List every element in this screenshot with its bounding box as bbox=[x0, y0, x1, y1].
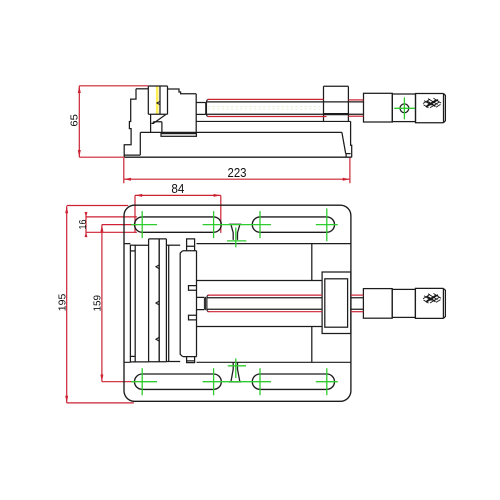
thread minor top bbox=[207, 101, 364, 103]
dim 159 ext bottom bbox=[102, 381, 135, 383]
rail top bbox=[197, 280, 323, 282]
left foot inner line bbox=[124, 154, 140, 156]
thread minor bottom bbox=[207, 113, 364, 115]
jaw plate gap highlight (yellow stripe) bbox=[156, 86, 159, 114]
slot BR bbox=[252, 374, 334, 389]
223 arrows bbox=[124, 178, 131, 181]
knob knurl symbol (side view) bbox=[423, 98, 441, 108]
fixed jaw clamp boss under plate bbox=[150, 114, 152, 132]
svg-text:195: 195 bbox=[56, 294, 68, 312]
dim 195 ext bottom bbox=[67, 402, 134, 404]
bracket top bbox=[324, 85, 349, 87]
dim 223 ext right bbox=[349, 158, 351, 183]
handle cross hole bbox=[400, 104, 409, 113]
movable jaw slide plate bbox=[161, 134, 196, 137]
clamp V bottom bbox=[229, 362, 242, 382]
bracket right bbox=[347, 86, 349, 121]
bottom row verticals bbox=[141, 368, 143, 395]
movable jaw top profile bbox=[168, 89, 197, 94]
jaw plate seam line bbox=[158, 239, 160, 362]
base rear edge bbox=[351, 121, 352, 157]
dim 65 extension bottom bbox=[79, 156, 124, 158]
plan knob right face bbox=[443, 288, 445, 318]
right foot notch bbox=[345, 154, 347, 158]
plan screw neck bbox=[197, 297, 205, 309]
dim 223 ext left bbox=[123, 158, 125, 183]
dim 195 line bbox=[66, 206, 68, 403]
plan handle square bbox=[392, 289, 415, 317]
dim 65 extension top bbox=[79, 85, 148, 87]
fixed jaw support top bbox=[136, 88, 148, 90]
rail bottom bbox=[197, 326, 323, 328]
jaw seam line bbox=[159, 86, 161, 114]
strip tick top bbox=[130, 250, 135, 252]
base rear slant bbox=[342, 132, 346, 153]
dim 84 line bbox=[135, 194, 221, 196]
gap top edge bbox=[166, 244, 180, 246]
jaw left strip bbox=[130, 245, 135, 362]
65 arrows bbox=[78, 86, 81, 93]
159 arrows bbox=[100, 225, 103, 232]
dim 195 ext top bbox=[67, 205, 129, 207]
slot TR bbox=[252, 217, 334, 232]
movable jaw rear edge bbox=[195, 94, 197, 133]
plan seam triangles bbox=[156, 265, 160, 342]
hub block bbox=[364, 93, 393, 122]
bottom band edge bbox=[124, 361, 351, 363]
handle square bbox=[392, 94, 415, 122]
svg-text:65: 65 bbox=[69, 114, 81, 127]
screw neck bottom bbox=[196, 113, 206, 115]
casting body bbox=[135, 239, 148, 362]
dim 16 ext top bbox=[86, 216, 137, 218]
seam arrow mark bbox=[157, 101, 160, 104]
plan thread minor lines bbox=[207, 298, 322, 309]
knob body bbox=[416, 94, 444, 123]
casting left profile bbox=[124, 89, 136, 157]
green center lines plan bbox=[131, 208, 338, 395]
84 arrows bbox=[135, 194, 142, 197]
slot BL bbox=[135, 374, 222, 389]
dim 16 ext bottom bbox=[86, 231, 137, 233]
rail top edge bbox=[196, 120, 350, 122]
knob knurl symbol (plan view) bbox=[423, 294, 441, 304]
strip tick bottom bbox=[130, 355, 135, 357]
top band edge bbox=[124, 243, 351, 245]
plan thread red lines bbox=[208, 295, 364, 312]
movable jaw bottom tab bbox=[187, 357, 195, 363]
dim 16 line bbox=[85, 212, 87, 237]
top row horizontals bbox=[131, 224, 157, 226]
svg-text:223: 223 bbox=[228, 166, 247, 180]
movable plate face line bbox=[168, 245, 170, 361]
dim 159 ext top bbox=[102, 224, 137, 226]
green crosshair on handle hole (side view) bbox=[394, 97, 415, 119]
dim 223 line bbox=[124, 178, 350, 180]
plan thread cap bbox=[207, 295, 209, 312]
screw collar bbox=[205, 103, 207, 115]
base front face vertical bbox=[139, 132, 141, 155]
plan knob bbox=[415, 288, 443, 318]
svg-text:84: 84 bbox=[171, 182, 184, 196]
jaw plate bottom bbox=[148, 113, 167, 115]
screw neck top bbox=[196, 102, 206, 104]
16 arrows (outside) bbox=[85, 212, 88, 217]
top V cross bbox=[235, 228, 237, 248]
base bottom line bbox=[124, 156, 352, 158]
clamp V top bbox=[229, 224, 242, 240]
195 arrows bbox=[65, 206, 68, 213]
base outline rounded rect bbox=[124, 205, 351, 401]
svg-text:159: 159 bbox=[92, 295, 104, 312]
right foot top bbox=[346, 153, 351, 155]
dimension arrowheads bbox=[65, 86, 350, 403]
movable jaw body bbox=[180, 251, 183, 357]
jaw plate region bbox=[149, 239, 167, 362]
fixed jaw plate top bbox=[148, 85, 167, 87]
top row verticals bbox=[141, 211, 143, 238]
bracket outer plan bbox=[322, 272, 351, 334]
dim 159 line bbox=[101, 225, 103, 382]
bracket left bbox=[323, 86, 325, 121]
bracket inner plan bbox=[325, 279, 348, 327]
gap bottom edge bbox=[166, 361, 180, 363]
hidden thread dashes bbox=[208, 106, 323, 109]
window vertical top bbox=[311, 244, 313, 281]
window vertical bottom bbox=[311, 327, 313, 363]
nut tab upper bbox=[189, 286, 197, 291]
plan screw collar bbox=[204, 297, 205, 310]
dimension texts bbox=[171, 166, 246, 196]
svg-text:16: 16 bbox=[77, 219, 89, 229]
fixed jaw plate left edge bbox=[147, 86, 149, 114]
side thread red lines bbox=[208, 99, 364, 116]
knob right face bbox=[444, 94, 446, 123]
plan hub bbox=[363, 289, 392, 319]
slot TL bbox=[135, 217, 222, 232]
base front top edge bbox=[140, 131, 342, 133]
dim 65 line bbox=[78, 86, 80, 157]
nut tab lower bbox=[189, 315, 197, 320]
thread end cap bbox=[207, 99, 209, 116]
dim 84 ext right bbox=[220, 195, 222, 233]
dim 84 ext left bbox=[134, 195, 136, 233]
bottom V cross bbox=[235, 358, 237, 378]
movable jaw top tab bbox=[187, 239, 195, 251]
jaw plate right edge bbox=[167, 86, 169, 114]
thread bottom thick in bracket bbox=[324, 113, 349, 115]
bottom row horizontals bbox=[131, 381, 157, 383]
